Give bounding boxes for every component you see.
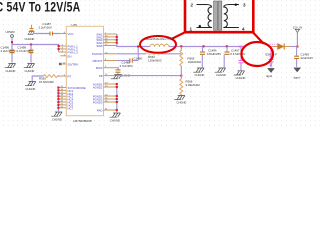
wire UPWR down — [11, 37, 13, 44]
pin stubs left — [58, 34, 66, 108]
capacitor C1490 (boot) — [129, 58, 131, 62]
svg-text:RT: RT — [68, 75, 72, 79]
IC U75 LM76005RNP body — [66, 26, 103, 115]
pin numbers left — [61, 32, 66, 108]
svg-text:2: 2 — [191, 2, 194, 7]
ground dgnd (snubber) — [266, 68, 274, 78]
svg-text:4.7uF/25V: 4.7uF/25V — [120, 64, 133, 68]
node CBOOT-SW — [137, 45, 139, 47]
svg-text:dgnd: dgnd — [294, 75, 300, 79]
svg-text:CHGND: CHGND — [6, 69, 16, 73]
svg-text:NC7: NC7 — [68, 106, 74, 110]
capacitor C1497 — [224, 47, 245, 68]
capacitor (pink, under right ellipse) — [239, 47, 244, 71]
svg-text:CBOOT: CBOOT — [92, 59, 102, 63]
node PVIN_2 — [58, 48, 60, 50]
wire AGND/PGND bus — [116, 84, 118, 112]
svg-text:EN: EN — [68, 54, 72, 58]
polarity dot pin1 — [199, 25, 201, 27]
ground CHGND (C1497) — [215, 68, 226, 77]
svg-text:22uF/16V: 22uF/16V — [301, 56, 314, 60]
wire SW bus — [117, 34, 150, 47]
svg-text:PGOOD: PGOOD — [92, 52, 103, 56]
node C1494 — [202, 45, 204, 47]
transformer T1 core — [214, 1, 222, 30]
annotation leader right — [253, 32, 264, 43]
svg-text:2.2uF/16V: 2.2uF/16V — [39, 26, 52, 30]
wire PGOOD — [118, 53, 147, 55]
port 12V_IN — [293, 26, 302, 47]
svg-text:C1490: C1490 — [134, 56, 143, 60]
node PVIN_1 — [58, 45, 60, 47]
svg-text:0.47uF/100V: 0.47uF/100V — [17, 49, 34, 53]
capacitor C1487 (series glyph on VCC line) — [39, 22, 53, 35]
ground CHGND (C1496) — [5, 64, 16, 73]
resistor R563 on RT — [32, 75, 60, 85]
polarity dot pin3 — [235, 3, 237, 5]
transformer pin labels — [190, 2, 247, 31]
annotation ellipse left — [140, 36, 176, 53]
annotation ellipse right — [241, 42, 273, 66]
ground CHGND (C1498) — [24, 64, 35, 73]
ground CHGND (divider) — [174, 96, 186, 105]
svg-text:PAD: PAD — [97, 108, 103, 112]
svg-text:C 54V To 12V/5A: C 54V To 12V/5A — [0, 0, 80, 15]
svg-text:SS/TRK: SS/TRK — [68, 63, 79, 67]
ground dgnd (C1493) — [294, 68, 301, 80]
svg-text:9.09k/0402: 9.09k/0402 — [186, 83, 201, 87]
node 12V_IN — [296, 45, 298, 47]
svg-text:U75: U75 — [72, 23, 78, 27]
node SW2 — [116, 36, 118, 38]
pin stubs right — [104, 34, 118, 110]
svg-text:120k/0603: 120k/0603 — [148, 58, 162, 62]
ground CHGND (C1494) — [193, 68, 204, 77]
pin numbers right — [105, 33, 108, 111]
svg-text:CHGND: CHGND — [25, 69, 35, 73]
ground CHGND (RT) — [25, 82, 36, 91]
wire FB — [118, 75, 182, 77]
resistor R564 (hidden under ellipse annotation) — [146, 52, 160, 55]
node FB divider — [180, 75, 182, 77]
wire input bus — [12, 45, 59, 53]
no-connect X on SS/TRK — [59, 63, 61, 65]
capacitor C1493 — [294, 47, 313, 67]
svg-text:12V_IN: 12V_IN — [293, 26, 302, 30]
svg-text:100k/0402: 100k/0402 — [188, 60, 202, 64]
ground CHGND (VCC) — [25, 32, 35, 41]
transformer primary winding — [197, 5, 212, 28]
inductor L505 — [150, 44, 169, 47]
capacitor C1488 — [116, 69, 121, 71]
capacitor C1494 — [200, 47, 221, 68]
svg-text:0.47uF/25V: 0.47uF/25V — [230, 52, 245, 56]
svg-text:2.2uF/100V: 2.2uF/100V — [1, 49, 16, 53]
capacitor (vertical, at VCC ground cluster) — [30, 25, 34, 31]
wire BIAS — [117, 68, 120, 70]
wire diode to 12V_IN node — [291, 46, 298, 48]
dangling end marker (pink) — [239, 46, 244, 48]
node SW3 — [116, 39, 118, 41]
svg-text:CHGND: CHGND — [26, 87, 36, 91]
svg-text:CHGND: CHGND — [177, 101, 187, 105]
annotation leader left — [171, 32, 186, 39]
svg-text:CHGND: CHGND — [52, 117, 62, 121]
resistor R565 — [180, 47, 202, 76]
svg-text:PVIN_3: PVIN_3 — [68, 51, 79, 55]
svg-text:1: 1 — [190, 26, 193, 31]
svg-text:CHGND: CHGND — [195, 73, 205, 77]
ground CHGND (right) — [234, 71, 246, 80]
capacitor C1496 — [1, 45, 16, 63]
wire NC/SYNC bus to ground — [57, 88, 59, 112]
svg-text:LM76005RNP: LM76005RNP — [73, 119, 92, 123]
svg-text:CHGND: CHGND — [25, 37, 35, 41]
node dots NC pins — [57, 86, 59, 108]
svg-text:97.6K/0402: 97.6K/0402 — [39, 80, 54, 84]
capacitor C1498 — [17, 45, 34, 63]
svg-text:PGND3: PGND3 — [93, 100, 103, 104]
svg-text:3: 3 — [243, 2, 246, 7]
svg-text:CHGND: CHGND — [216, 73, 226, 77]
node R565 — [180, 45, 182, 47]
capacitor (pink, snubber at diode anode) — [269, 47, 274, 68]
svg-text:100uF/25V: 100uF/25V — [207, 52, 221, 56]
ground CHGND (NC bus) — [51, 112, 62, 121]
svg-text:UPWR: UPWR — [6, 30, 16, 34]
wire CBOOT — [118, 60, 130, 62]
svg-text:L505: L505 — [156, 35, 162, 37]
pin names (blue) right — [92, 32, 103, 112]
svg-text:SW5: SW5 — [96, 44, 103, 48]
resistor R566 — [180, 76, 200, 96]
wire VCC line — [34, 33, 61, 35]
svg-text:AGND2: AGND2 — [93, 85, 103, 89]
svg-text:VCC: VCC — [68, 32, 74, 36]
node SW4 — [116, 42, 118, 44]
svg-text:BIAS: BIAS — [96, 66, 103, 70]
svg-text:4: 4 — [242, 26, 245, 31]
pin names (blue) left — [68, 32, 86, 110]
node C1498 tap — [30, 43, 32, 45]
svg-text:FB: FB — [99, 74, 103, 78]
wire output rail — [169, 46, 243, 48]
transformer secondary winding — [224, 5, 239, 28]
svg-text:CHGND: CHGND — [236, 76, 246, 80]
annotation red box — [185, 0, 253, 32]
svg-text:CHGND: CHGND — [110, 118, 120, 122]
ground CHGND (BIAS) — [111, 74, 131, 79]
node C1497 — [226, 45, 228, 47]
ground CHGND (power pad) — [110, 113, 121, 122]
svg-text:dgnd: dgnd — [266, 74, 272, 78]
node junction on UPWR drop — [11, 41, 13, 43]
diode E360A-F — [265, 43, 291, 56]
wire CBOOT to SW — [137, 47, 139, 61]
